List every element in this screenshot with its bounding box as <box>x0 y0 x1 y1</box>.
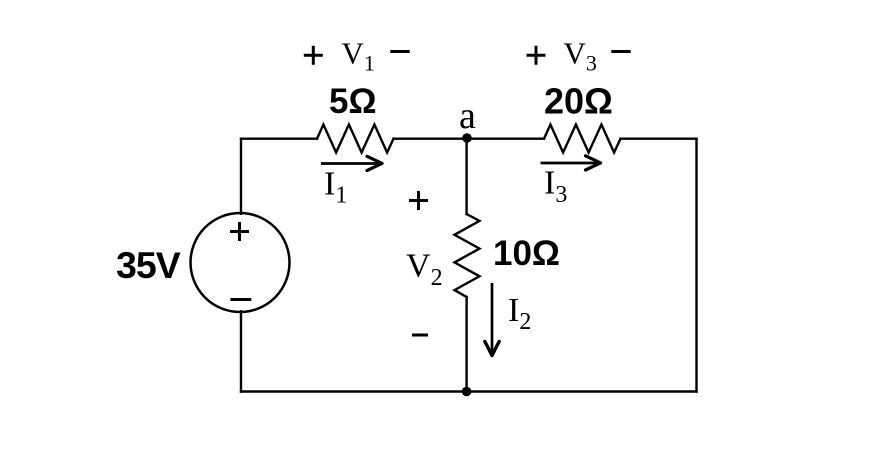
bottom junction node dot <box>462 387 472 397</box>
minus sign of source polarity <box>230 298 251 301</box>
resistor R2 10ohm vertical zigzag <box>455 214 480 297</box>
voltage source V1 circle 35V <box>191 213 290 312</box>
wire top-right horizontal <box>621 137 697 139</box>
svg-text:35V: 35V <box>116 244 181 286</box>
svg-text:I2: I2 <box>508 292 531 335</box>
svg-text:5Ω: 5Ω <box>329 82 377 121</box>
current arrow I3 <box>541 156 601 170</box>
resistor R3 20ohm zigzag <box>544 125 621 153</box>
wire middle vertical upper (node a to R2) <box>465 139 467 214</box>
svg-text:V3: V3 <box>564 36 597 76</box>
minus sign of V1 label <box>390 50 409 53</box>
minus sign of V3 label <box>611 50 630 53</box>
svg-text:V1: V1 <box>342 36 375 76</box>
wire left vertical lower <box>240 311 242 391</box>
svg-text:V2: V2 <box>406 248 443 292</box>
wire top-middle horizontal <box>394 137 545 139</box>
node a junction dot <box>462 133 472 143</box>
plus sign of source polarity <box>230 222 249 241</box>
svg-text:20Ω: 20Ω <box>544 81 613 122</box>
plus sign of V1 label <box>304 46 323 65</box>
plus sign of V2 label <box>409 191 428 210</box>
wire right vertical <box>695 139 697 392</box>
current arrow I2 (downward) <box>485 283 499 356</box>
svg-text:I1: I1 <box>324 166 347 209</box>
wire top-left horizontal <box>241 137 317 139</box>
wire left vertical upper <box>240 139 242 214</box>
wire middle vertical lower (R2 to bottom node) <box>465 297 467 392</box>
plus sign of V3 label <box>527 46 546 65</box>
current arrow I1 <box>321 156 382 170</box>
svg-text:10Ω: 10Ω <box>493 234 560 273</box>
svg-text:I3: I3 <box>544 165 567 209</box>
resistor R1 5ohm zigzag <box>317 125 394 153</box>
wire bottom horizontal <box>241 390 697 392</box>
svg-text:a: a <box>459 95 476 137</box>
minus sign of V2 label <box>412 334 428 337</box>
